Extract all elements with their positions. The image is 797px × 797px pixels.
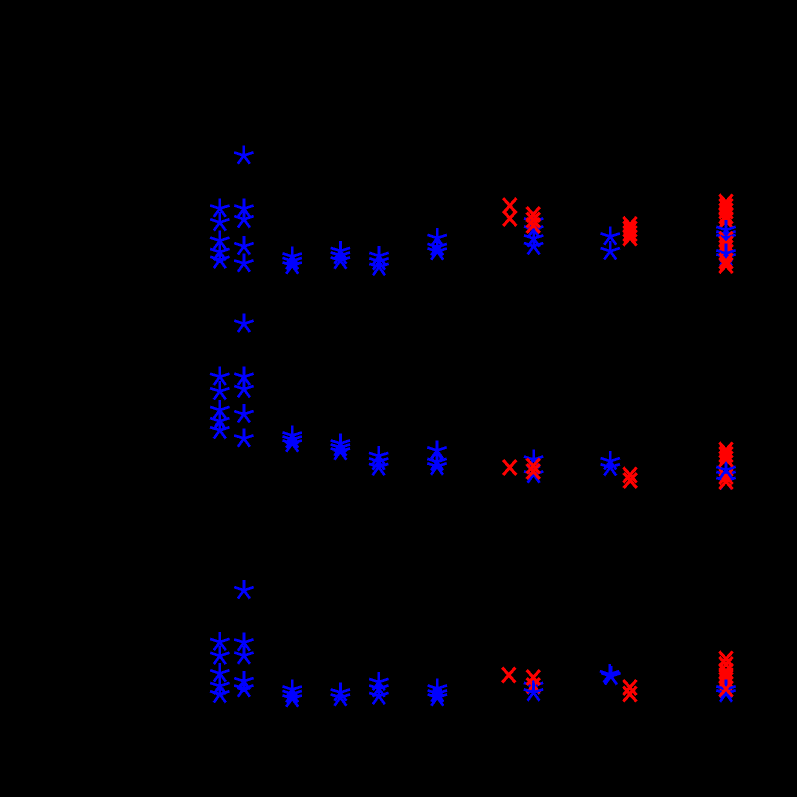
red x row1 col8 y=225.5: [527, 218, 540, 233]
blue star row1 col2 y=246.3: [234, 236, 253, 254]
blue star row3 col1 y=694.3: [210, 684, 229, 702]
red x row1 col11 y=248.0: [719, 241, 732, 256]
blue star row3 col2 y=681.2: [234, 671, 253, 689]
red x row3 col10 y=694: [623, 687, 636, 702]
blue circle row3 col1: [216, 688, 224, 696]
blue star row2 col11 y=475: [716, 465, 735, 483]
blue star row2 col1 y=410.0: [210, 400, 229, 418]
blue star row1 col2 y=219.3: [234, 209, 253, 227]
blue star row2 col5 y=456.0: [369, 446, 388, 464]
blue star row1 col9 y=236.5: [601, 226, 620, 244]
blue star row2 col9 y=461.2: [601, 451, 620, 469]
red x row1 col10 y=229.0: [623, 222, 636, 237]
blue star row3 col2 y=642.5: [234, 632, 253, 650]
blue star row1 col11 y=238: [716, 228, 735, 246]
blue star row2 col3 y=435.5: [283, 425, 302, 443]
blue star row3 col3 y=698.5: [283, 688, 302, 706]
blue star row3 col8 y=686 under red: [524, 676, 543, 694]
blue star row2 col8 y=474.5: [524, 464, 543, 482]
red x row1 col11 y=261: [719, 254, 732, 269]
red x row2 col11 y=459.0: [719, 452, 732, 467]
red x row3 col11 y=684.5: [719, 677, 732, 692]
blue star row2 col4 y=447.5: [331, 437, 350, 455]
blue star row3 col9 a: [600, 664, 619, 682]
blue star row1 col6 y=251.5: [428, 241, 447, 259]
blue star row2 col2 y=389.1: [234, 379, 253, 397]
blue star row2 col1 y=421.2: [210, 411, 229, 429]
red x row3 col8 y=677.5: [527, 670, 540, 685]
red x row2 col11 y=450.0: [719, 443, 732, 458]
blue star row1 col11 y=230: [716, 220, 735, 238]
blue star row3 col5 y=682.0: [369, 672, 388, 690]
blue circle row3 col6: [433, 688, 441, 696]
red x row3 col11 y=659.0: [719, 652, 732, 667]
red x row3 col11 y=664.5: [719, 657, 732, 672]
blue star row2 col2 y=414.2: [234, 404, 253, 422]
blue star row1 col5 y=261.5: [369, 251, 388, 269]
blue star row1 col3 y=256.5: [283, 246, 302, 264]
blue circle row2 col6: [433, 455, 441, 463]
blue star row2 col3 y=439.5: [283, 429, 302, 447]
blue star row2 col6 y=450.5: [427, 440, 446, 458]
blue star row1 col8 under red: [524, 211, 543, 229]
red x row1 col11 y=206.5: [719, 199, 732, 214]
blue star row2 col5 y=461.5: [369, 451, 388, 469]
blue star row2 col2 y=376.8: [234, 367, 253, 385]
blue star row1 col3 y=261.0: [283, 251, 302, 269]
red x row2 col7: [503, 460, 516, 475]
red x row1 col11 y=202.0: [719, 195, 732, 210]
red x row1 col11 y=211.0: [719, 204, 732, 219]
blue star row1 col11 y=234.5: [716, 224, 735, 242]
blue star row2 col2 y=438.5: [234, 428, 253, 446]
blue star row1 col2 y=263.5: [234, 253, 253, 271]
blue star row1 col1 y=222.4: [210, 212, 229, 230]
blue star row3 col2 y=688.5: [234, 678, 253, 696]
blue star row1 col1 y=240.7: [210, 231, 229, 249]
blue star row1 col3 y=265.5: [283, 255, 302, 273]
red x row1 col10 y=238.0: [623, 231, 636, 246]
blue circle row3 col8: [529, 681, 537, 689]
red x row1 col7 y=205.7: [503, 198, 516, 213]
blue star row1 col8 y=246.2: [524, 236, 543, 254]
blue star row3 col1 y=673.4: [210, 663, 229, 681]
blue star row2 col6 y=462.0: [427, 452, 446, 470]
red x row3 col11 y=680.0: [719, 673, 732, 688]
red x row1 col11 y=252.5: [719, 245, 732, 260]
red x row2 col8 y=471.5: [527, 464, 540, 479]
red x row2 col11 y=454.5: [719, 447, 732, 462]
blue star row1 col5 y=256.0: [369, 246, 388, 264]
blue circle row1 col1: [216, 254, 224, 262]
blue star row1 col1 y=252.0: [210, 242, 229, 260]
red x row1 col11 y=216.0: [719, 209, 732, 224]
blue circle row1 col6: [433, 242, 441, 250]
blue star row1 outlier: [234, 145, 253, 163]
blue star row3 col11 y=689.5: [716, 679, 735, 697]
red x row3 col11 y=671.0: [719, 664, 732, 679]
red x row3 col8 y=685.5: [527, 678, 540, 693]
blue star row1 col8 y=238.5: [524, 228, 543, 246]
red x row1 col11 y=244.0: [719, 237, 732, 252]
red x row3 col7: [502, 668, 515, 683]
red x row2 col10 y=480.5: [624, 473, 637, 488]
blue star row2 col11 y=481: [716, 471, 735, 489]
blue star row1 col6 y=247.0: [428, 237, 447, 255]
blue star row1 col1 y=208.6: [210, 198, 229, 216]
red x row1 col7 y=218.4: [503, 211, 516, 226]
blue star row1 col11 y=253.5: [716, 243, 735, 261]
blue star row3 col5 y=688.5: [369, 678, 388, 696]
red x row3 col11 y=675.5: [719, 668, 732, 683]
red x row2 col11 y=481.5: [719, 474, 732, 489]
red x row1 col11 y=220.5: [719, 213, 732, 228]
blue star row3 col2 y=655.6: [234, 645, 253, 663]
blue star row3 col1 y=655.9: [210, 646, 229, 664]
blue star row3 col6 y=693.5: [428, 683, 447, 701]
red x row1 col8 y=220: [527, 213, 540, 228]
blue circle row3 col2: [240, 683, 248, 691]
blue star row1 col11 y=257.5: [716, 247, 735, 265]
blue circle row2 col1: [216, 423, 224, 431]
blue star row2 col4 y=443.5: [331, 433, 350, 451]
blue star row1 col1 y=259.9: [210, 250, 229, 268]
blue star row3 col11 y=693.5: [716, 683, 735, 701]
red x row1 col8 y=214.5: [527, 207, 540, 222]
blue star row1 col8 y=229.5: [524, 219, 543, 237]
red x row1 col11 y=265.5: [719, 258, 732, 273]
blue star row2 col6 y=466.5: [427, 456, 446, 474]
blue star row3 col8 y=692.5: [524, 682, 543, 700]
blue star row2 col9 y=467.3: [601, 457, 620, 475]
blue star row3 col6 y=688.5: [428, 678, 447, 696]
blue star row3 col1 y=686.0: [210, 676, 229, 694]
blue star row1 col5 y=267.0: [369, 257, 388, 275]
blue star row1 col4 y=260.5: [331, 250, 350, 268]
blue star row3 col9 b: [601, 666, 620, 684]
blue star row2 col1 y=391.3: [210, 381, 229, 399]
blue star row3 col3 y=689.5: [283, 679, 302, 697]
blue star row3 col1 y=642.0: [210, 632, 229, 650]
blue star row2 col8 y=459.6: [524, 449, 543, 467]
blue star row2 col1 y=430.3: [210, 420, 229, 438]
red x row1 col10 y=233.5: [623, 226, 636, 241]
blue star row2 col3 y=443.5: [283, 433, 302, 451]
blue star row2 col5 y=467.0: [369, 457, 388, 475]
red x row2 col8 y=466: [527, 459, 540, 474]
blue star row3 col4 y=697.5: [331, 687, 350, 705]
blue star row3 outlier: [234, 580, 253, 598]
blue star row1 col9 y=251.2: [601, 241, 620, 259]
blue star row1 col6 y=238.0: [428, 228, 447, 246]
blue star row2 col4 y=451.5: [331, 441, 350, 459]
red x row2 col10 y=475: [623, 468, 636, 483]
blue star row3 col4 y=692.5: [331, 682, 350, 700]
blue star row1 col4 y=251.0: [331, 241, 350, 259]
red x row3 col11 y=689: [719, 682, 732, 697]
red x row1 col11 y=239.2: [719, 232, 732, 247]
red x row1 col10 y=224.5: [623, 217, 636, 232]
blue star row2 col1 y=376.8: [210, 367, 229, 385]
blue star row2 outlier: [234, 314, 253, 332]
red x row3 col10 y=687.5: [623, 680, 636, 695]
red x row2 col11 y=476.5: [719, 469, 732, 484]
blue star row1 col2 y=208.6: [234, 198, 253, 216]
blue star row3 col6 y=697.5: [428, 687, 447, 705]
blue star row2 col11 y=470: [716, 460, 735, 478]
blue star row3 col3 y=694.0: [283, 684, 302, 702]
blue star row1 col4 y=255.5: [331, 245, 350, 263]
blue star row3 col5 y=696.0: [369, 686, 388, 704]
